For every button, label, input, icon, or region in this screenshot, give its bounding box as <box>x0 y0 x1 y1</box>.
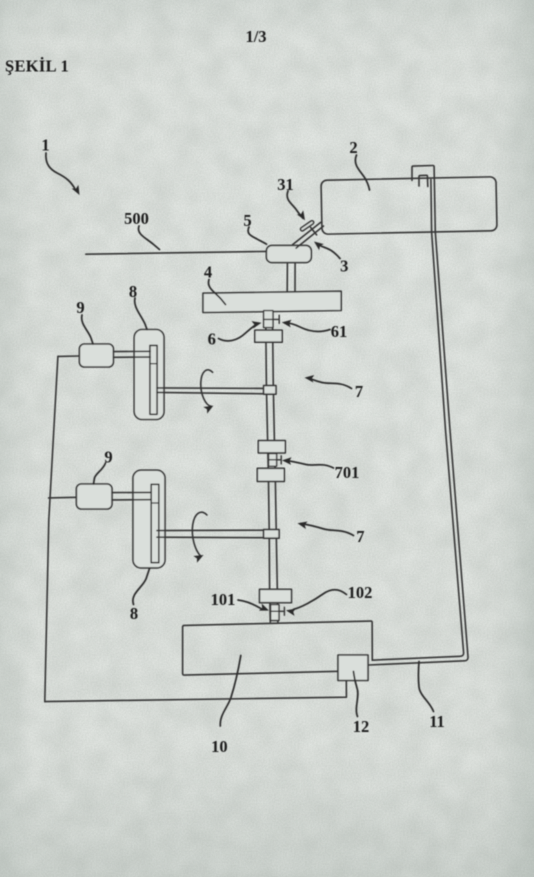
svg-text:3: 3 <box>340 256 348 275</box>
svg-text:6: 6 <box>208 329 216 348</box>
svg-text:1: 1 <box>41 135 49 154</box>
svg-text:ŞEKİL 1: ŞEKİL 1 <box>5 57 69 76</box>
svg-text:701: 701 <box>335 463 360 482</box>
svg-text:101: 101 <box>211 590 236 609</box>
svg-text:500: 500 <box>124 209 149 228</box>
svg-text:102: 102 <box>348 583 373 602</box>
svg-text:9: 9 <box>76 298 84 317</box>
svg-text:11: 11 <box>429 712 445 731</box>
svg-text:4: 4 <box>204 262 212 281</box>
svg-text:7: 7 <box>356 527 364 546</box>
svg-text:7: 7 <box>355 382 363 401</box>
svg-text:8: 8 <box>130 604 138 623</box>
svg-text:10: 10 <box>211 737 228 756</box>
svg-text:12: 12 <box>353 717 370 736</box>
svg-text:61: 61 <box>331 322 348 341</box>
svg-text:8: 8 <box>129 282 137 301</box>
svg-text:1/3: 1/3 <box>245 27 266 46</box>
svg-text:9: 9 <box>104 448 112 467</box>
svg-text:31: 31 <box>277 175 294 194</box>
svg-text:5: 5 <box>243 211 251 230</box>
svg-text:2: 2 <box>349 138 357 157</box>
